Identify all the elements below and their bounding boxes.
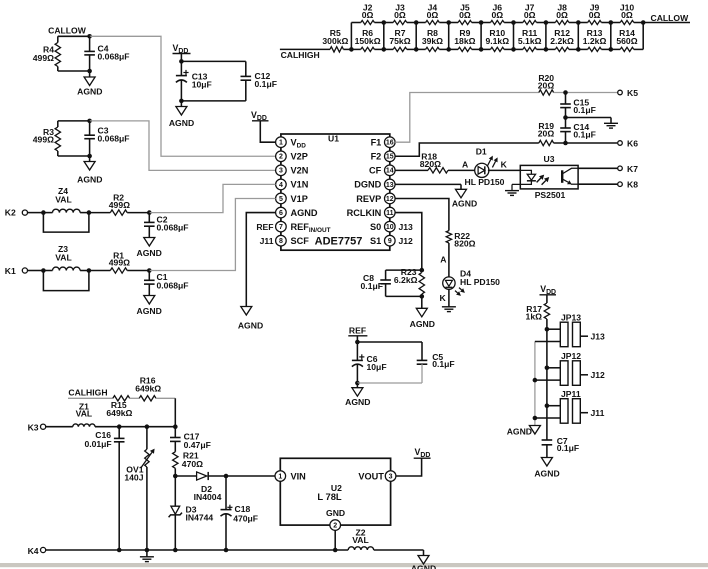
power VDD symbol at R17 [540, 284, 557, 303]
svg-text:0Ω: 0Ω [362, 10, 374, 20]
svg-text:CALHIGH: CALHIGH [281, 50, 320, 60]
op-amp U1 ADE7757 energy metering IC [281, 134, 390, 251]
pin 11 RCLKIN [347, 207, 396, 218]
svg-text:3: 3 [389, 473, 393, 480]
svg-text:1: 1 [279, 140, 283, 147]
jumper JP11 (SCF select) [535, 389, 605, 423]
svg-text:12: 12 [386, 196, 394, 203]
terminal K6 [618, 139, 639, 149]
pin 16 F1 [371, 137, 396, 148]
resistor R9 18kΩ [449, 28, 481, 52]
pin 8 SCF [276, 235, 310, 246]
svg-text:VAL: VAL [55, 195, 72, 205]
ground AGND at pin 6 [238, 307, 263, 331]
svg-text:0.01μF: 0.01μF [84, 439, 111, 449]
svg-text:AGND: AGND [137, 248, 162, 258]
wire F1 pin16 to R20 [395, 93, 539, 143]
svg-text:0.1μF: 0.1μF [255, 79, 277, 89]
terminal K7 [618, 164, 639, 174]
resistor R8 39kΩ [416, 28, 449, 52]
capacitor C4 0.068uF [84, 36, 129, 73]
ladder junction 4 [479, 20, 484, 52]
svg-text:K6: K6 [627, 139, 638, 149]
svg-text:10μF: 10μF [192, 80, 212, 90]
capacitor C5 0.1uF [357, 342, 454, 383]
pin 2 GND of U2 [330, 520, 341, 531]
svg-text:JP12: JP12 [561, 351, 581, 361]
resistor R6 150kΩ [351, 28, 383, 52]
svg-text:13: 13 [386, 182, 394, 189]
wire Z2 to AGND [374, 549, 424, 551]
svg-text:AGND: AGND [137, 306, 162, 316]
svg-text:V2P: V2P [291, 152, 308, 162]
ladder junction 8 [609, 20, 614, 52]
svg-text:K: K [439, 293, 446, 303]
wire REVP pin12 down [395, 198, 449, 230]
jumper J6 0 ohm [481, 3, 513, 25]
svg-text:820Ω: 820Ω [454, 239, 475, 249]
resistor R12 2.2kΩ [546, 28, 578, 52]
svg-text:2: 2 [279, 154, 283, 161]
svg-text:VAL: VAL [55, 253, 72, 263]
pin 3 V2N [276, 165, 309, 176]
svg-text:0.1μF: 0.1μF [573, 129, 595, 139]
resistor R4 [33, 36, 90, 71]
earth ground from C15/C14 node [566, 118, 619, 129]
svg-text:0Ω: 0Ω [556, 10, 568, 20]
svg-text:AGND: AGND [411, 564, 436, 569]
svg-text:499Ω: 499Ω [109, 200, 130, 210]
terminal K3 [28, 423, 73, 433]
earth ground under D4 [442, 307, 456, 312]
svg-text:K3: K3 [28, 423, 39, 433]
svg-text:0.1μF: 0.1μF [557, 443, 579, 453]
capacitor C18 470uF [221, 476, 259, 550]
svg-text:K1: K1 [5, 266, 16, 276]
ladder junction 2 [414, 20, 419, 52]
wire D1 cathode to U3 [488, 159, 521, 170]
svg-text:K7: K7 [627, 164, 638, 174]
ground AGND under C4 [77, 71, 102, 97]
diode D2 IN4004 [175, 472, 275, 502]
jumper J3 0 ohm [384, 3, 416, 25]
capacitor C14 0.1uF [560, 118, 596, 144]
svg-text:RCLKIN: RCLKIN [347, 208, 382, 218]
svg-text:K4: K4 [28, 546, 39, 556]
label J12 at pin 9 [399, 236, 414, 246]
pin 6 AGND [276, 207, 318, 218]
svg-text:4: 4 [279, 182, 283, 189]
svg-text:AGND: AGND [77, 175, 102, 185]
svg-text:HL PD150: HL PD150 [465, 177, 505, 187]
svg-text:CALHIGH: CALHIGH [68, 387, 107, 397]
power VDD symbol at pin 1 [251, 110, 276, 142]
svg-text:3: 3 [279, 168, 283, 175]
earth ground at U3 input cathode [505, 184, 519, 195]
varistor OV1 140J [124, 427, 154, 550]
svg-text:A: A [462, 159, 468, 169]
svg-text:GND: GND [326, 508, 345, 518]
wire R1 node to V1P pin 5 [147, 198, 276, 272]
zener diode D3 IN4744 [169, 476, 214, 550]
terminal K1 [5, 266, 44, 276]
wire R16 down to rail [174, 398, 176, 426]
capacitor C8 0.1uF [361, 270, 422, 296]
ground AGND arrow on jumper rail [507, 426, 541, 437]
svg-text:ADE7757: ADE7757 [315, 236, 363, 248]
svg-text:D1: D1 [476, 146, 487, 156]
net CALHIGH (top) [280, 49, 330, 60]
svg-text:5: 5 [279, 196, 283, 203]
capacitor C3 0.068uF [84, 121, 129, 158]
svg-text:150kΩ: 150kΩ [355, 36, 381, 46]
resistor R2 499 ohm [89, 192, 149, 215]
svg-text:11: 11 [386, 210, 394, 217]
wire U3 emitter to K8 [578, 183, 618, 185]
svg-text:0.068μF: 0.068μF [157, 280, 189, 290]
svg-text:CALLOW: CALLOW [48, 26, 87, 36]
svg-text:IN4004: IN4004 [194, 492, 222, 502]
svg-text:K8: K8 [627, 180, 638, 190]
svg-text:0Ω: 0Ω [459, 10, 471, 20]
resistor R13 1.2kΩ [578, 28, 611, 52]
svg-text:1.2kΩ: 1.2kΩ [583, 36, 607, 46]
svg-text:F2: F2 [371, 152, 382, 162]
svg-text:1: 1 [278, 473, 282, 480]
wire R22 to D4 anode [440, 243, 449, 277]
svg-text:VAL: VAL [76, 408, 93, 418]
resistor R1 499 ohm [89, 250, 149, 273]
svg-text:REF: REF [256, 222, 273, 232]
capacitor C17 0.47uF [170, 427, 211, 452]
resistor R10 9.1kΩ [481, 28, 513, 52]
resistor R22 820 ohm [446, 231, 475, 249]
wire R3C3 node to V2N pin 3 [90, 121, 276, 170]
svg-text:IN4744: IN4744 [186, 512, 214, 522]
ladder junction 7 [576, 20, 581, 52]
svg-text:REF: REF [349, 326, 366, 336]
svg-text:75kΩ: 75kΩ [389, 36, 410, 46]
resistor R11 5.1kΩ [514, 28, 546, 52]
label REF at pin 7 [256, 222, 273, 232]
svg-text:0.1μF: 0.1μF [573, 105, 595, 115]
ground AGND under C1 [137, 296, 162, 316]
inductor Z1 VAL [73, 401, 95, 426]
ladder junction 5 [511, 20, 516, 52]
wire CALLOW node to V2P pin 2 [90, 36, 276, 156]
svg-text:560Ω: 560Ω [616, 36, 637, 46]
terminal K5 [618, 88, 639, 98]
svg-text:0.47μF: 0.47μF [184, 440, 211, 450]
resistor R23 6.2k [394, 267, 425, 299]
svg-text:S0: S0 [370, 222, 381, 232]
capacitor C7 0.1uF [542, 436, 580, 458]
resistor R19 20 ohm [538, 121, 555, 146]
wire CF pin14 to R18 [395, 169, 428, 171]
page-bottom grey band [0, 563, 708, 567]
svg-text:20Ω: 20Ω [538, 81, 555, 91]
resistor R14 560Ω [611, 28, 643, 52]
ground AGND under C6 [345, 383, 370, 407]
svg-text:AGND: AGND [77, 87, 102, 97]
wire R19 to K6 [554, 141, 618, 146]
svg-text:K: K [501, 159, 508, 169]
svg-text:S1: S1 [370, 236, 381, 246]
resistor R18 820 ohm [420, 152, 448, 174]
inductor Z2 VAL [348, 528, 374, 551]
label J13 at pin 10 [399, 222, 414, 232]
wire R2 node to V1N pin 4 [147, 184, 276, 214]
svg-text:649kΩ: 649kΩ [135, 383, 161, 393]
jumper J10 0 ohm [611, 3, 643, 25]
svg-text:10μF: 10μF [367, 362, 387, 372]
svg-text:HL PD150: HL PD150 [460, 277, 500, 287]
wire VOUT to VDD [396, 458, 422, 476]
ground AGND at return rail end [411, 550, 436, 569]
svg-text:649kΩ: 649kΩ [106, 408, 132, 418]
jumper JP13 (S0 select) [535, 313, 605, 347]
svg-text:U1: U1 [328, 134, 339, 144]
resistor R7 75kΩ [384, 28, 416, 52]
svg-text:L 78L: L 78L [317, 491, 342, 502]
svg-text:0.068μF: 0.068μF [98, 133, 130, 143]
svg-text:V2N: V2N [291, 166, 309, 176]
svg-text:39kΩ: 39kΩ [422, 36, 443, 46]
capacitor C6 10uF [352, 342, 387, 385]
jumper J5 0 ohm [449, 3, 481, 25]
svg-text:J12: J12 [399, 236, 414, 246]
svg-text:499Ω: 499Ω [109, 258, 130, 268]
svg-text:1kΩ: 1kΩ [526, 312, 543, 322]
svg-text:J13: J13 [399, 222, 414, 232]
svg-text:0Ω: 0Ω [589, 10, 601, 20]
svg-text:VIN: VIN [291, 471, 307, 481]
svg-text:AGND: AGND [507, 426, 532, 436]
resistor R16 649k [135, 376, 175, 401]
jumper J7 0 ohm [514, 3, 546, 25]
jumper JP12 (S1 select) [535, 351, 605, 385]
pin 14 CF [369, 165, 395, 176]
capacitor C13 10uF [176, 59, 246, 103]
wire Z1 to C17 node (main live rail) [95, 424, 178, 429]
pin 3 VOUT of U2 [358, 471, 396, 482]
node R3-C3 [87, 119, 92, 124]
wire R20 to K5 [554, 90, 618, 95]
svg-text:140J: 140J [124, 473, 143, 483]
ground AGND under C2 [137, 238, 162, 258]
svg-text:0.068μF: 0.068μF [98, 52, 130, 62]
svg-text:0Ω: 0Ω [524, 10, 536, 20]
ground AGND at DGND [452, 189, 477, 208]
svg-text:9.1kΩ: 9.1kΩ [485, 36, 509, 46]
wire RCLKIN pin11 down [395, 213, 424, 273]
ground AGND under C13 [169, 101, 194, 128]
svg-text:K2: K2 [5, 208, 16, 218]
resistor R5 300k [322, 28, 351, 52]
svg-text:AGND: AGND [410, 319, 435, 329]
svg-text:JP13: JP13 [561, 313, 581, 323]
terminal K2 [5, 208, 44, 218]
svg-text:K5: K5 [627, 88, 638, 98]
regulator U2 L78L [280, 458, 390, 525]
svg-text:AGND: AGND [291, 208, 318, 218]
svg-text:0Ω: 0Ω [394, 10, 406, 20]
power VDD symbol (decoupling group) [173, 43, 191, 61]
svg-text:499Ω: 499Ω [33, 53, 54, 63]
svg-text:0Ω: 0Ω [427, 10, 439, 20]
svg-text:CF: CF [369, 166, 382, 176]
ladder junction 6 [544, 20, 549, 52]
svg-text:0.068μF: 0.068μF [157, 222, 189, 232]
svg-text:V1N: V1N [291, 180, 309, 190]
calibration ladder left vertical [349, 23, 354, 52]
svg-text:0.1μF: 0.1μF [432, 359, 454, 369]
svg-text:7: 7 [279, 224, 283, 231]
capacitor C2 0.068uF [144, 213, 189, 238]
jumper J2 0 ohm [351, 3, 383, 25]
capacitor C16 0.01uF [84, 427, 124, 550]
net REF (reference) [348, 326, 422, 345]
svg-text:V1P: V1P [291, 194, 308, 204]
svg-text:8: 8 [279, 238, 283, 245]
wire AGND pin6 down [246, 213, 275, 307]
svg-text:AGND: AGND [452, 198, 477, 208]
svg-text:CALLOW: CALLOW [651, 13, 690, 23]
svg-text:470μF: 470μF [233, 513, 258, 523]
terminal K4 and return rail [28, 546, 349, 556]
capacitor C15 0.1uF [560, 93, 596, 120]
ground rail for jumpers (AGND) [533, 342, 538, 426]
pin 5 V1P [276, 193, 308, 204]
pin 7 REFIN/OUT [276, 221, 331, 234]
net CALHIGH (power side) [68, 387, 113, 398]
calibration ladder right vertical to CALLOW [641, 13, 690, 49]
ladder junction 3 [446, 20, 451, 52]
svg-text:VAL: VAL [352, 535, 369, 545]
svg-text:F1: F1 [371, 138, 382, 148]
svg-text:10: 10 [386, 224, 394, 231]
svg-text:820Ω: 820Ω [420, 159, 441, 169]
svg-text:0Ω: 0Ω [491, 10, 503, 20]
resistor R17 1k [526, 303, 550, 440]
ground AGND under C3 [77, 156, 102, 185]
svg-text:AGND: AGND [345, 397, 370, 407]
svg-text:REVP: REVP [356, 194, 381, 204]
pin 10 S0 [370, 221, 395, 232]
ground AGND under R23 [410, 296, 435, 329]
jumper J8 0 ohm [546, 3, 578, 25]
svg-text:A: A [440, 255, 446, 265]
svg-text:AGND: AGND [169, 118, 194, 128]
svg-text:20Ω: 20Ω [538, 129, 555, 139]
svg-text:J11: J11 [260, 236, 274, 246]
wire GND pin2 down to return rail [333, 530, 338, 552]
wire U3 collector to K7 [578, 167, 618, 169]
power VDD symbol at U2 output [414, 447, 431, 459]
svg-text:5.1kΩ: 5.1kΩ [518, 36, 542, 46]
svg-text:J12: J12 [591, 370, 606, 380]
inductor Z3 VAL [41, 244, 91, 290]
wire F2 pin15 to R19 [395, 143, 539, 156]
LED D1 HL PD150 [465, 146, 505, 187]
jumper J4 0 ohm [416, 3, 449, 25]
node CALLOW (top-left) [48, 26, 92, 39]
resistor R21 470 ohm [173, 451, 204, 479]
ladder junction 1 [382, 20, 387, 52]
svg-text:0Ω: 0Ω [621, 10, 633, 20]
svg-text:6: 6 [279, 210, 283, 217]
label J11 at pin 8 [260, 236, 274, 246]
svg-text:15: 15 [386, 154, 394, 161]
svg-text:18kΩ: 18kΩ [454, 36, 475, 46]
LED D4 HL PD150 [443, 268, 500, 296]
svg-text:6.2kΩ: 6.2kΩ [394, 275, 418, 285]
svg-text:AGND: AGND [534, 468, 559, 478]
resistor R20 20 ohm [538, 73, 555, 95]
svg-text:JP11: JP11 [561, 389, 581, 399]
wire D4 cathode to earth [439, 289, 448, 307]
resistor R3 [33, 121, 90, 156]
svg-text:300kΩ: 300kΩ [322, 36, 348, 46]
svg-text:9: 9 [388, 238, 392, 245]
resistor R15 649k [106, 396, 139, 418]
svg-text:VOUT: VOUT [358, 471, 384, 481]
pin 13 DGND [354, 179, 395, 190]
svg-text:SCF: SCF [291, 236, 310, 246]
capacitor C12 0.1uF [241, 61, 277, 101]
svg-text:U3: U3 [544, 154, 555, 164]
optocoupler U3 PS2501 [512, 154, 578, 200]
terminal K8 [618, 180, 639, 190]
pin 1 VIN of U2 [275, 471, 306, 482]
svg-text:2: 2 [333, 523, 337, 530]
pin 9 S1 [370, 235, 395, 246]
svg-text:14: 14 [386, 168, 394, 175]
svg-text:0.1μF: 0.1μF [361, 281, 383, 291]
svg-text:J11: J11 [591, 408, 605, 418]
jumper J9 0 ohm [578, 3, 611, 25]
ground AGND under C7 [534, 458, 559, 479]
wire R18 to D1 anode [448, 159, 476, 170]
inductor Z4 VAL [41, 186, 91, 232]
svg-text:499Ω: 499Ω [33, 135, 54, 145]
wire DGND pin13 to AGND [395, 184, 461, 189]
pin 1 VDD [276, 137, 307, 150]
svg-text:470Ω: 470Ω [182, 459, 203, 469]
pin 12 REVP [356, 193, 395, 204]
capacitor C1 0.068uF [144, 271, 189, 296]
svg-text:J13: J13 [591, 332, 606, 342]
svg-text:PS2501: PS2501 [535, 190, 566, 200]
svg-text:DGND: DGND [354, 180, 381, 190]
svg-text:2.2kΩ: 2.2kΩ [550, 36, 574, 46]
pin 15 F2 [371, 151, 396, 162]
pin 4 V1N [276, 179, 309, 190]
svg-text:16: 16 [386, 140, 394, 147]
svg-text:AGND: AGND [238, 320, 263, 330]
pin 2 V2P [276, 151, 308, 162]
earth ground on return rail [140, 550, 154, 562]
